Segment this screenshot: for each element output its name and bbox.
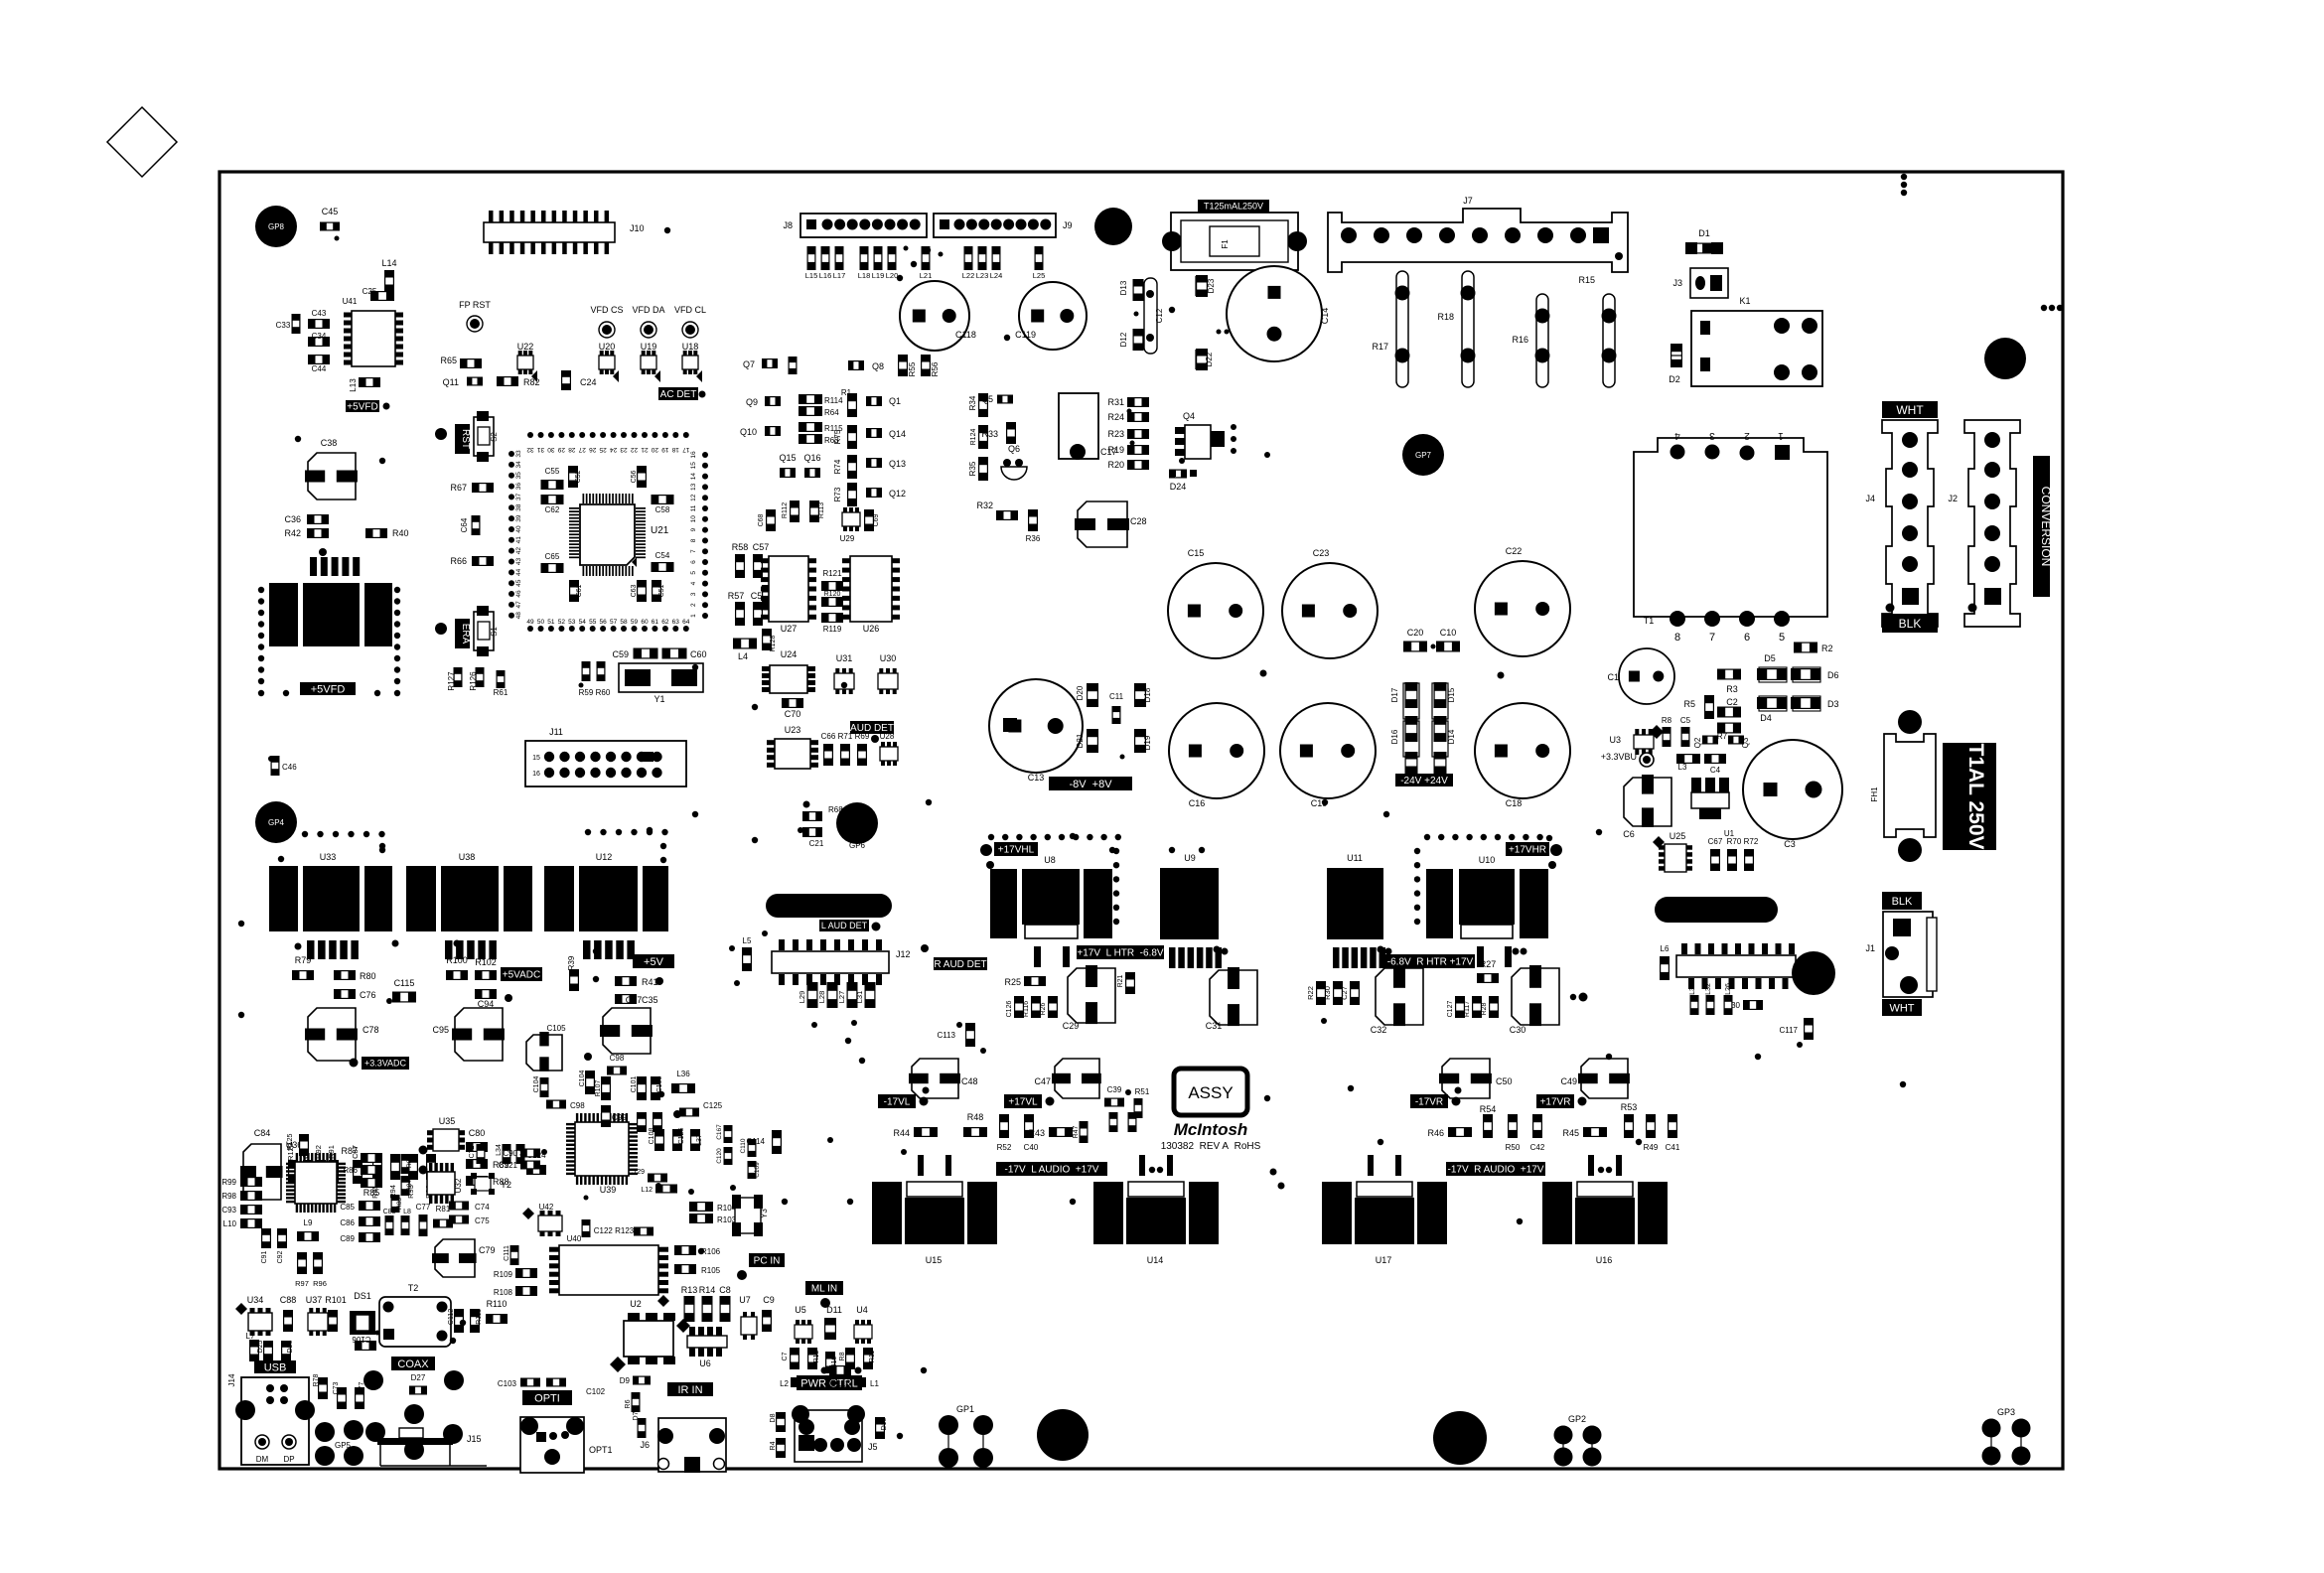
- svg-text:L26: L26: [1725, 983, 1732, 995]
- svg-text:D2: D2: [1669, 374, 1680, 384]
- svg-text:25: 25: [599, 446, 607, 453]
- svg-text:Q16: Q16: [803, 453, 820, 463]
- svg-text:R124: R124: [970, 429, 977, 446]
- svg-text:R87: R87: [341, 1146, 358, 1156]
- svg-text:Q7: Q7: [743, 359, 755, 369]
- svg-text:+3.3VBU: +3.3VBU: [1601, 752, 1637, 762]
- svg-text:D3: D3: [1827, 699, 1839, 709]
- svg-text:Q9: Q9: [746, 397, 758, 407]
- svg-text:R33: R33: [981, 429, 998, 439]
- svg-text:+17V L HTR -6.8V: +17V L HTR -6.8V: [1077, 948, 1163, 959]
- svg-text:C119: C119: [1015, 330, 1036, 340]
- svg-text:U26: U26: [863, 624, 880, 634]
- svg-text:RST: RST: [460, 429, 471, 449]
- svg-text:35: 35: [515, 472, 522, 480]
- svg-text:VFD DA: VFD DA: [632, 305, 664, 315]
- svg-text:C73: C73: [333, 1381, 340, 1394]
- svg-text:J12: J12: [896, 949, 911, 959]
- svg-text:R73: R73: [833, 487, 842, 501]
- svg-text:C100: C100: [656, 1076, 663, 1093]
- svg-text:U22: U22: [517, 342, 534, 352]
- svg-text:C62: C62: [545, 505, 560, 514]
- svg-text:J8: J8: [783, 220, 793, 230]
- svg-text:32: 32: [526, 446, 534, 453]
- svg-text:D24: D24: [1170, 482, 1187, 492]
- svg-text:15: 15: [532, 755, 540, 762]
- svg-text:L33: L33: [1689, 983, 1696, 995]
- svg-text:GP4: GP4: [268, 818, 285, 827]
- svg-text:C121: C121: [499, 1161, 518, 1170]
- svg-text:R32: R32: [976, 500, 993, 510]
- svg-text:61: 61: [652, 619, 659, 626]
- svg-text:C29: C29: [1063, 1021, 1080, 1031]
- svg-text:C41: C41: [1666, 1143, 1680, 1152]
- svg-text:R8: R8: [839, 1352, 846, 1360]
- svg-text:53: 53: [568, 619, 576, 626]
- svg-text:C24: C24: [580, 377, 597, 387]
- svg-text:C70: C70: [785, 709, 801, 719]
- svg-text:D9: D9: [620, 1376, 631, 1385]
- svg-text:Q3: Q3: [1741, 737, 1750, 748]
- svg-text:49: 49: [526, 619, 534, 626]
- svg-text:C99: C99: [612, 1113, 627, 1122]
- svg-text:Y3: Y3: [760, 1209, 769, 1218]
- svg-text:58: 58: [620, 619, 628, 626]
- svg-text:R27: R27: [1480, 959, 1497, 969]
- svg-text:42: 42: [515, 547, 522, 555]
- svg-text:R5: R5: [1683, 699, 1695, 709]
- svg-text:+5V: +5V: [644, 956, 664, 968]
- svg-text:C3: C3: [1784, 839, 1796, 849]
- svg-text:BLK: BLK: [1899, 617, 1922, 631]
- svg-text:CONVERSION: CONVERSION: [2039, 487, 2053, 567]
- svg-text:C167: C167: [716, 1124, 723, 1140]
- svg-text:Q4: Q4: [1183, 411, 1195, 421]
- svg-text:R1: R1: [841, 388, 852, 397]
- svg-text:C11: C11: [1109, 692, 1124, 701]
- svg-text:C89: C89: [340, 1234, 355, 1243]
- svg-text:D27: D27: [411, 1373, 426, 1382]
- svg-text:L31: L31: [855, 991, 864, 1004]
- svg-text:C98: C98: [570, 1101, 585, 1110]
- svg-text:C15: C15: [1188, 548, 1205, 558]
- svg-text:J11: J11: [549, 727, 563, 737]
- svg-text:U19: U19: [641, 342, 657, 352]
- svg-text:R50: R50: [1506, 1143, 1521, 1152]
- svg-text:Q8: Q8: [872, 361, 884, 371]
- svg-text:R4: R4: [770, 1441, 777, 1450]
- svg-text:R82: R82: [406, 1156, 413, 1168]
- svg-text:D11: D11: [826, 1305, 842, 1315]
- svg-text:C63: C63: [631, 584, 638, 597]
- svg-text:R51: R51: [1135, 1087, 1150, 1096]
- svg-text:D19: D19: [1143, 735, 1152, 750]
- svg-text:C104: C104: [533, 1076, 540, 1093]
- svg-text:R39: R39: [567, 955, 576, 970]
- svg-text:C78: C78: [363, 1025, 379, 1035]
- svg-text:D23: D23: [1207, 278, 1216, 293]
- svg-text:38: 38: [515, 503, 522, 511]
- svg-text:U2: U2: [630, 1299, 642, 1309]
- svg-text:48: 48: [515, 612, 522, 620]
- svg-text:34: 34: [515, 461, 522, 469]
- svg-text:6: 6: [690, 560, 697, 564]
- svg-text:U1: U1: [1724, 829, 1735, 838]
- svg-text:6: 6: [1744, 632, 1750, 643]
- svg-text:D18: D18: [1143, 687, 1152, 702]
- svg-text:21: 21: [641, 446, 649, 453]
- svg-text:R127: R127: [447, 671, 456, 691]
- svg-text:C66: C66: [821, 732, 836, 741]
- svg-text:U38: U38: [459, 852, 476, 862]
- svg-text:C23: C23: [1313, 548, 1330, 558]
- svg-text:4: 4: [1674, 430, 1680, 441]
- svg-text:C84: C84: [254, 1128, 271, 1138]
- svg-text:C54: C54: [655, 551, 670, 560]
- svg-text:L6: L6: [1661, 944, 1670, 953]
- svg-text:R26: R26: [1040, 1002, 1047, 1015]
- svg-text:41: 41: [515, 536, 522, 544]
- svg-text:C56: C56: [631, 470, 638, 483]
- svg-text:U30: U30: [880, 653, 897, 663]
- svg-text:D25: D25: [257, 1340, 264, 1353]
- svg-text:60: 60: [641, 619, 649, 626]
- svg-text:R70: R70: [1727, 837, 1742, 846]
- svg-text:J14: J14: [227, 1373, 236, 1386]
- svg-text:R57: R57: [728, 591, 745, 601]
- svg-text:24: 24: [610, 446, 618, 453]
- svg-text:18: 18: [671, 446, 679, 453]
- svg-text:C44: C44: [312, 364, 327, 373]
- svg-text:10: 10: [690, 515, 697, 523]
- svg-text:C109: C109: [754, 1162, 761, 1178]
- svg-text:C102: C102: [586, 1387, 606, 1396]
- svg-text:C50: C50: [1496, 1076, 1513, 1086]
- svg-text:R21: R21: [1117, 974, 1124, 987]
- svg-text:R105: R105: [701, 1266, 721, 1275]
- svg-text:R41: R41: [642, 977, 658, 987]
- svg-text:R42: R42: [284, 528, 301, 538]
- svg-text:U33: U33: [320, 852, 337, 862]
- svg-text:44: 44: [515, 568, 522, 576]
- svg-text:C85: C85: [340, 1203, 355, 1212]
- svg-text:R75: R75: [833, 429, 842, 444]
- svg-text:U17: U17: [1376, 1255, 1392, 1265]
- svg-text:R66: R66: [450, 556, 467, 566]
- svg-text:R108: R108: [494, 1288, 513, 1297]
- svg-text:50: 50: [537, 619, 545, 626]
- svg-text:C127: C127: [1447, 1001, 1454, 1018]
- svg-text:PC IN: PC IN: [754, 1256, 781, 1267]
- svg-text:D21: D21: [1076, 733, 1085, 748]
- svg-text:K1: K1: [1739, 296, 1750, 306]
- svg-text:R59: R59: [579, 688, 594, 697]
- svg-text:7: 7: [1709, 632, 1715, 643]
- svg-text:C93: C93: [221, 1206, 236, 1215]
- svg-text:11: 11: [690, 504, 697, 511]
- svg-text:C33: C33: [276, 321, 291, 330]
- svg-text:GP8: GP8: [268, 222, 285, 231]
- svg-text:L27: L27: [837, 991, 846, 1004]
- svg-text:R31: R31: [1107, 397, 1124, 407]
- svg-text:U20: U20: [599, 342, 616, 352]
- svg-text:R34: R34: [968, 395, 977, 410]
- svg-text:19: 19: [661, 446, 669, 453]
- svg-text:L32: L32: [1705, 983, 1712, 995]
- svg-text:D13: D13: [1119, 280, 1128, 295]
- svg-text:130382 REV A RoHS: 130382 REV A RoHS: [1161, 1141, 1261, 1152]
- svg-text:U28: U28: [880, 732, 895, 741]
- svg-text:R117: R117: [1464, 1001, 1471, 1017]
- svg-text:U5: U5: [795, 1305, 806, 1315]
- svg-text:U4: U4: [856, 1305, 868, 1315]
- svg-text:16: 16: [532, 771, 540, 778]
- svg-text:WHT: WHT: [1889, 1003, 1914, 1015]
- svg-text:U14: U14: [1147, 1255, 1164, 1265]
- svg-text:C5: C5: [1680, 716, 1691, 725]
- svg-text:U10: U10: [1479, 855, 1496, 865]
- svg-text:R28: R28: [1481, 1002, 1488, 1015]
- svg-text:FP RST: FP RST: [459, 300, 491, 310]
- svg-text:C110: C110: [740, 1138, 747, 1153]
- svg-text:U21: U21: [651, 525, 669, 536]
- svg-text:C76: C76: [360, 990, 376, 1000]
- svg-text:C18: C18: [1506, 798, 1523, 808]
- svg-text:8: 8: [690, 538, 697, 542]
- svg-text:R35: R35: [968, 461, 977, 476]
- svg-text:R22: R22: [1306, 986, 1315, 1000]
- svg-text:D14: D14: [1447, 729, 1456, 744]
- svg-text:D8: D8: [770, 1413, 777, 1422]
- svg-text:20: 20: [651, 446, 658, 453]
- svg-text:C111: C111: [504, 1245, 510, 1261]
- svg-text:C68: C68: [758, 513, 765, 526]
- svg-text:15: 15: [690, 462, 697, 470]
- svg-text:L2: L2: [780, 1379, 789, 1388]
- svg-text:R19: R19: [1107, 445, 1124, 455]
- svg-text:BLK: BLK: [1892, 896, 1913, 908]
- svg-text:L10: L10: [223, 1219, 237, 1228]
- svg-text:C98: C98: [610, 1054, 625, 1063]
- svg-text:-24V +24V: -24V +24V: [1400, 776, 1448, 786]
- svg-text:R52: R52: [997, 1143, 1012, 1152]
- svg-text:28: 28: [568, 446, 576, 453]
- svg-text:D7: D7: [633, 1411, 640, 1420]
- svg-text:R6: R6: [625, 1399, 632, 1408]
- svg-text:C86: C86: [340, 1218, 355, 1227]
- svg-text:R100: R100: [446, 955, 468, 965]
- svg-text:L17: L17: [833, 271, 846, 280]
- svg-text:U39: U39: [600, 1185, 617, 1195]
- svg-text:C9: C9: [763, 1295, 775, 1305]
- svg-text:-17VL: -17VL: [884, 1097, 911, 1108]
- svg-text:+5VADC: +5VADC: [503, 970, 540, 981]
- svg-text:R65: R65: [440, 356, 457, 365]
- svg-text:51: 51: [547, 619, 555, 626]
- svg-text:L21: L21: [920, 271, 933, 280]
- svg-text:-8V +8V: -8V +8V: [1069, 779, 1112, 790]
- svg-text:R30: R30: [1323, 986, 1332, 1000]
- svg-text:C6: C6: [1623, 829, 1635, 839]
- svg-text:D26: D26: [287, 1340, 294, 1353]
- svg-text:C105: C105: [546, 1024, 566, 1033]
- svg-text:C79: C79: [479, 1245, 496, 1255]
- svg-text:C126: C126: [678, 1128, 685, 1145]
- svg-text:L4: L4: [738, 651, 748, 661]
- svg-text:C103: C103: [498, 1379, 517, 1388]
- svg-text:C47: C47: [1034, 1076, 1051, 1086]
- svg-text:R18: R18: [1437, 312, 1454, 322]
- svg-text:C101: C101: [631, 1076, 638, 1093]
- svg-text:C59: C59: [612, 649, 629, 659]
- svg-text:7: 7: [690, 549, 697, 553]
- svg-text:U7: U7: [739, 1295, 751, 1305]
- svg-text:L3: L3: [1678, 763, 1687, 772]
- svg-text:D12: D12: [1119, 332, 1128, 347]
- svg-text:C4: C4: [1710, 766, 1721, 775]
- svg-text:R72: R72: [1744, 837, 1759, 846]
- svg-text:C64: C64: [460, 517, 469, 532]
- svg-text:C69: C69: [873, 513, 880, 526]
- svg-text:C22: C22: [1506, 546, 1523, 556]
- svg-text:L14: L14: [381, 258, 396, 268]
- svg-text:+17VHR: +17VHR: [1509, 845, 1546, 856]
- svg-text:39: 39: [515, 514, 522, 522]
- svg-text:R3: R3: [1726, 684, 1738, 694]
- svg-text:R128: R128: [770, 636, 777, 652]
- svg-text:R20: R20: [1107, 460, 1124, 470]
- svg-text:C104: C104: [579, 1071, 586, 1087]
- svg-text:-17V L AUDIO +17V: -17V L AUDIO +17V: [1005, 1165, 1099, 1176]
- svg-text:C88: C88: [280, 1295, 297, 1305]
- svg-text:2: 2: [1744, 430, 1750, 441]
- svg-text:GP1: GP1: [956, 1404, 974, 1414]
- svg-text:63: 63: [672, 619, 680, 626]
- svg-text:U12: U12: [596, 852, 613, 862]
- svg-text:R13: R13: [681, 1285, 698, 1295]
- svg-text:C13: C13: [1028, 773, 1045, 783]
- svg-text:L13: L13: [349, 378, 358, 392]
- svg-text:U15: U15: [926, 1255, 943, 1265]
- svg-text:U37: U37: [306, 1295, 323, 1305]
- svg-text:D17: D17: [1390, 687, 1399, 702]
- svg-text:C38: C38: [321, 438, 338, 448]
- svg-text:U3: U3: [1609, 735, 1621, 745]
- svg-text:22: 22: [631, 446, 639, 453]
- svg-text:WHT: WHT: [1896, 403, 1924, 417]
- svg-text:R125: R125: [287, 1134, 294, 1151]
- svg-text:J2: J2: [1948, 494, 1958, 503]
- svg-text:57: 57: [610, 619, 618, 626]
- svg-text:R15: R15: [1578, 275, 1595, 285]
- svg-text:T1AL 250V: T1AL 250V: [1964, 744, 1987, 850]
- svg-text:29: 29: [557, 446, 565, 453]
- svg-text:R53: R53: [1621, 1102, 1638, 1112]
- svg-text:16: 16: [690, 451, 697, 459]
- svg-text:52: 52: [558, 619, 566, 626]
- svg-text:+5VFD: +5VFD: [311, 684, 346, 696]
- svg-text:C16: C16: [1189, 798, 1206, 808]
- svg-text:R67: R67: [450, 483, 467, 493]
- svg-text:3: 3: [690, 592, 697, 596]
- svg-text:C120: C120: [716, 1148, 723, 1164]
- svg-text:D1: D1: [1698, 228, 1710, 238]
- svg-text:R55: R55: [908, 361, 917, 376]
- svg-text:U9: U9: [1184, 853, 1196, 863]
- svg-text:C25: C25: [363, 287, 377, 296]
- svg-text:+17VL: +17VL: [1008, 1097, 1038, 1108]
- svg-text:R109: R109: [494, 1270, 513, 1279]
- svg-text:Q15: Q15: [779, 453, 796, 463]
- svg-text:R85: R85: [363, 1188, 380, 1198]
- svg-text:C28: C28: [1130, 516, 1147, 526]
- svg-text:+5VFD: +5VFD: [347, 402, 377, 413]
- svg-text:VFD CL: VFD CL: [674, 305, 706, 315]
- svg-text:9: 9: [690, 527, 697, 531]
- svg-text:R99: R99: [221, 1178, 236, 1187]
- svg-text:C91: C91: [261, 1250, 268, 1263]
- svg-text:2: 2: [690, 603, 697, 607]
- svg-text:L20: L20: [886, 271, 899, 280]
- svg-text:ML IN: ML IN: [811, 1284, 837, 1295]
- svg-text:+17VR: +17VR: [1540, 1097, 1571, 1108]
- svg-text:C52: C52: [575, 470, 582, 483]
- svg-text:R121: R121: [822, 569, 842, 578]
- svg-text:GP2: GP2: [1568, 1414, 1586, 1424]
- svg-text:R45: R45: [1562, 1128, 1579, 1138]
- svg-text:C34: C34: [312, 332, 327, 341]
- svg-text:U8: U8: [1044, 855, 1056, 865]
- svg-text:64: 64: [682, 619, 690, 626]
- svg-text:C40: C40: [1024, 1143, 1039, 1152]
- svg-text:L8: L8: [403, 1209, 411, 1215]
- svg-text:R43: R43: [1028, 1128, 1045, 1138]
- svg-text:C65: C65: [545, 552, 560, 561]
- svg-text:40: 40: [515, 525, 522, 533]
- svg-text:R60: R60: [596, 688, 611, 697]
- svg-text:C55: C55: [545, 467, 560, 476]
- svg-text:U42: U42: [539, 1203, 554, 1212]
- svg-text:J4: J4: [1865, 494, 1875, 503]
- svg-text:C113: C113: [937, 1031, 955, 1040]
- svg-text:OPTI: OPTI: [534, 1393, 560, 1405]
- svg-text:R110: R110: [487, 1299, 508, 1309]
- svg-text:Q5: Q5: [981, 394, 993, 404]
- svg-text:R112: R112: [782, 502, 789, 518]
- svg-text:DM: DM: [256, 1455, 269, 1464]
- svg-text:J15: J15: [467, 1434, 482, 1444]
- svg-text:J3: J3: [1672, 278, 1682, 288]
- svg-text:R82: R82: [523, 377, 540, 387]
- svg-text:R12: R12: [813, 1350, 820, 1362]
- svg-text:C20: C20: [1407, 628, 1424, 638]
- svg-text:C117: C117: [1779, 1026, 1798, 1035]
- svg-text:R119: R119: [823, 625, 842, 634]
- svg-text:R23: R23: [1107, 429, 1124, 439]
- svg-text:R2: R2: [1821, 643, 1833, 653]
- svg-text:C21: C21: [809, 839, 824, 848]
- svg-text:L28: L28: [817, 991, 826, 1004]
- svg-text:ERA: ERA: [460, 624, 471, 644]
- svg-text:R AUD DET: R AUD DET: [934, 959, 986, 970]
- svg-text:COAX: COAX: [397, 1358, 429, 1370]
- svg-text:C57: C57: [753, 542, 770, 552]
- svg-text:R107: R107: [595, 1080, 602, 1097]
- svg-text:C42: C42: [1530, 1143, 1545, 1152]
- svg-text:5: 5: [690, 571, 697, 575]
- svg-text:C2: C2: [1726, 697, 1738, 707]
- svg-text:D5: D5: [1764, 653, 1776, 663]
